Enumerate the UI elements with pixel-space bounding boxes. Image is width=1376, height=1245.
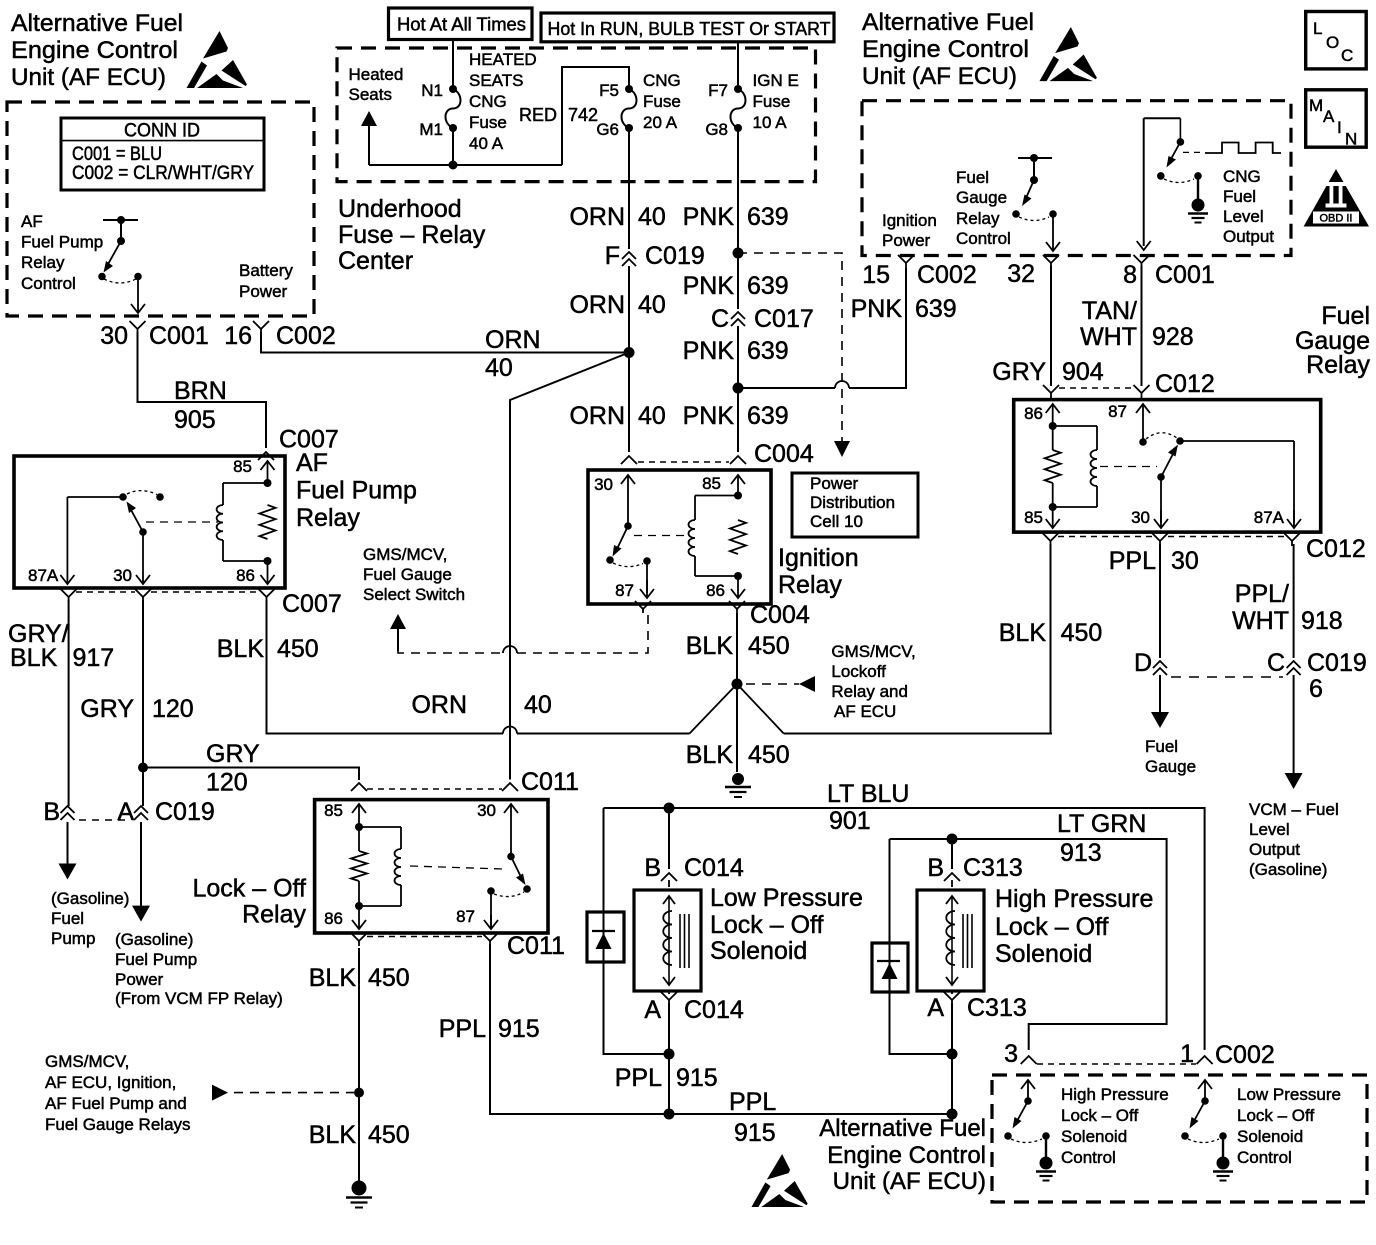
svg-text:32: 32 xyxy=(1007,260,1035,288)
svg-text:AF ECU: AF ECU xyxy=(834,702,896,721)
switch High Pressure Lock-Off Solenoid Control xyxy=(1027,1081,1029,1101)
resistor Ignition Relay xyxy=(730,520,746,554)
wire Heated Seats arrow xyxy=(368,124,370,165)
ESD symbol (bottom) xyxy=(751,1154,807,1207)
svg-text:ORN: ORN xyxy=(485,326,541,354)
wire BLK 450 below ignition relay xyxy=(736,613,738,772)
svg-text:N1: N1 xyxy=(421,81,443,100)
switch Lock-Off Relay xyxy=(507,853,515,861)
wire PNK 639 to C017 xyxy=(737,256,739,309)
svg-text:ORN: ORN xyxy=(411,691,467,719)
relay AF Fuel Pump Relay box xyxy=(14,456,285,588)
symbol MAIN box xyxy=(1306,90,1367,147)
connector 8 C001 xyxy=(1134,255,1150,263)
box Power Distribution Cell 10 xyxy=(792,473,918,537)
svg-text:Fuse – Relay: Fuse – Relay xyxy=(338,221,486,249)
header box Hot At All Times xyxy=(389,8,533,40)
connector C012 bottom xyxy=(1043,533,1059,541)
resistor Lock-Off Relay xyxy=(355,823,363,831)
svg-text:B: B xyxy=(644,854,661,882)
svg-text:Relay: Relay xyxy=(21,253,65,272)
svg-text:Engine Control: Engine Control xyxy=(827,1142,986,1169)
connector C004 top xyxy=(621,456,637,464)
svg-text:Cell 10: Cell 10 xyxy=(810,512,863,531)
dashed wire to BLK 450 junction xyxy=(212,1085,228,1101)
wire BLK 450 to ground (left) xyxy=(354,1088,364,1098)
svg-text:PPL: PPL xyxy=(1109,547,1156,575)
svg-text:639: 639 xyxy=(747,337,789,365)
svg-text:A: A xyxy=(117,798,134,826)
svg-text:450: 450 xyxy=(748,632,790,660)
svg-text:GRY: GRY xyxy=(992,358,1046,386)
svg-text:GMS/MCV,: GMS/MCV, xyxy=(363,545,447,564)
svg-text:3: 3 xyxy=(1004,1040,1018,1068)
wire GRY 904 xyxy=(1050,266,1052,386)
svg-text:86: 86 xyxy=(236,566,255,585)
svg-text:913: 913 xyxy=(1060,839,1102,867)
svg-text:Power: Power xyxy=(239,282,288,301)
svg-text:Ignition: Ignition xyxy=(778,544,859,572)
fuse IGN E 10A xyxy=(734,85,742,93)
connector C011 top xyxy=(351,783,367,791)
svg-text:Control: Control xyxy=(1237,1148,1292,1167)
svg-text:30: 30 xyxy=(1171,547,1199,575)
connector C007 bottom xyxy=(61,589,77,597)
svg-text:CNG: CNG xyxy=(469,92,507,111)
svg-text:Level: Level xyxy=(1249,820,1290,839)
wire PPL/WHT 918 xyxy=(1293,544,1295,658)
svg-text:C: C xyxy=(1267,649,1285,677)
svg-text:Alternative Fuel: Alternative Fuel xyxy=(11,10,183,37)
svg-text:A: A xyxy=(1323,107,1335,126)
svg-text:Solenoid: Solenoid xyxy=(995,940,1092,968)
svg-text:BLK: BLK xyxy=(686,741,734,769)
svg-text:BRN: BRN xyxy=(174,377,227,405)
svg-text:(Gasoline): (Gasoline) xyxy=(115,930,193,949)
wire high solenoid to PPL bus xyxy=(951,1003,953,1114)
svg-text:30: 30 xyxy=(477,801,496,820)
svg-text:Gauge: Gauge xyxy=(956,188,1007,207)
ground (ignition relay BLK 450) xyxy=(732,773,744,785)
svg-text:CNG: CNG xyxy=(643,71,681,90)
svg-text:Output: Output xyxy=(1223,227,1274,246)
AF ECU dashed box (bottom right) xyxy=(992,1075,1367,1202)
svg-text:85: 85 xyxy=(233,457,252,476)
svg-text:BLK: BLK xyxy=(309,964,357,992)
svg-text:BLK: BLK xyxy=(217,635,265,663)
svg-text:639: 639 xyxy=(915,295,957,323)
svg-text:G6: G6 xyxy=(596,120,619,139)
svg-text:86: 86 xyxy=(706,581,725,600)
connector C C019 xyxy=(1287,661,1301,668)
solenoid High Pressure Lock-Off box xyxy=(917,890,984,991)
svg-text:87A: 87A xyxy=(28,566,59,585)
svg-text:Relay: Relay xyxy=(956,209,1000,228)
svg-text:15: 15 xyxy=(862,261,890,289)
svg-text:30: 30 xyxy=(113,566,132,585)
svg-text:120: 120 xyxy=(206,769,248,797)
svg-text:450: 450 xyxy=(277,635,319,663)
diode D-low box xyxy=(587,912,624,962)
solenoid low coil xyxy=(663,896,675,904)
Underhood Fuse-Relay Center dashed box xyxy=(337,48,816,182)
svg-text:RED: RED xyxy=(519,105,557,125)
svg-text:Distribution: Distribution xyxy=(810,493,895,512)
svg-text:Lock – Off: Lock – Off xyxy=(193,874,307,902)
wire to gasoline fuel pump power xyxy=(140,822,142,908)
dashed wire to Power Distribution xyxy=(738,253,842,441)
connector B C313 xyxy=(951,839,953,869)
svg-text:Fuel: Fuel xyxy=(956,168,989,187)
diode high pressure branch xyxy=(890,839,948,1054)
svg-text:86: 86 xyxy=(324,909,343,928)
svg-text:928: 928 xyxy=(1152,323,1194,351)
relay Fuel Gauge Relay box xyxy=(1014,400,1321,532)
svg-text:Relay: Relay xyxy=(778,571,842,599)
ground (CNG fuel level output) xyxy=(1192,199,1205,212)
junction LT BLU xyxy=(664,803,675,814)
svg-text:Unit (AF ECU): Unit (AF ECU) xyxy=(833,1168,986,1195)
svg-text:C004: C004 xyxy=(754,440,814,468)
svg-text:BLK: BLK xyxy=(10,644,58,672)
svg-text:BLK: BLK xyxy=(686,632,734,660)
wire PNK 639 from G8 xyxy=(737,128,739,250)
fuse HEATED SEATS CNG 40A xyxy=(449,85,457,93)
junction PNK 639 top xyxy=(733,248,744,259)
svg-text:20 A: 20 A xyxy=(643,113,678,132)
svg-text:L: L xyxy=(1313,19,1322,38)
fuse CNG 20A xyxy=(625,85,633,93)
svg-text:HEATED: HEATED xyxy=(469,50,537,69)
svg-text:GRY: GRY xyxy=(80,695,134,723)
svg-text:917: 917 xyxy=(73,644,115,672)
svg-text:Level: Level xyxy=(1223,207,1264,226)
svg-text:GRY: GRY xyxy=(206,740,260,768)
svg-text:Fuel: Fuel xyxy=(1321,302,1370,330)
svg-text:C313: C313 xyxy=(967,994,1027,1022)
svg-text:Lock – Off: Lock – Off xyxy=(1237,1106,1314,1125)
header box Hot In RUN BULB TEST Or START xyxy=(541,13,834,42)
switch AF Fuel Pump Relay xyxy=(67,496,123,498)
connector 15 C002 xyxy=(898,255,914,263)
svg-text:VCM – Fuel: VCM – Fuel xyxy=(1249,800,1339,819)
svg-text:86: 86 xyxy=(1024,404,1043,423)
svg-text:C019: C019 xyxy=(1307,649,1367,677)
svg-text:High Pressure: High Pressure xyxy=(1061,1085,1169,1104)
svg-text:PPL: PPL xyxy=(729,1088,776,1116)
svg-text:Fuse: Fuse xyxy=(469,113,507,132)
wire ORN 40 from C002-16 xyxy=(261,332,629,353)
svg-text:C002: C002 xyxy=(1215,1041,1275,1069)
svg-text:M1: M1 xyxy=(419,120,443,139)
wire ORN 40 from G6 xyxy=(628,128,630,249)
connector 32 C002 xyxy=(1043,255,1059,263)
svg-text:C014: C014 xyxy=(684,996,744,1024)
svg-text:Fuel: Fuel xyxy=(1145,737,1178,756)
ground (low pressure solenoid control) xyxy=(1217,1157,1230,1170)
svg-text:ORN: ORN xyxy=(569,203,625,231)
svg-text:450: 450 xyxy=(1061,619,1103,647)
square wave signal symbol xyxy=(1183,151,1203,153)
svg-text:87: 87 xyxy=(615,581,634,600)
svg-text:Fuel Gauge: Fuel Gauge xyxy=(363,565,452,584)
junction PNK 639 lower xyxy=(733,383,744,394)
svg-text:Solenoid: Solenoid xyxy=(1237,1127,1303,1146)
svg-text:Fuel Pump: Fuel Pump xyxy=(21,233,103,252)
dashed pointer GMS/MCV Lockoff Relay and AF ECU xyxy=(799,676,815,692)
svg-text:C017: C017 xyxy=(754,305,814,333)
svg-text:LT BLU: LT BLU xyxy=(827,780,909,808)
coil Ignition Relay xyxy=(734,492,742,500)
svg-text:Fuse: Fuse xyxy=(643,92,681,111)
svg-text:30: 30 xyxy=(594,475,613,494)
connector A C014 xyxy=(661,992,677,1000)
wire BRN 905 xyxy=(138,332,267,448)
svg-text:639: 639 xyxy=(747,402,789,430)
svg-text:Unit (AF ECU): Unit (AF ECU) xyxy=(11,64,166,91)
svg-text:Low Pressure: Low Pressure xyxy=(710,884,863,912)
svg-text:SEATS: SEATS xyxy=(469,71,523,90)
svg-text:Lock – Off: Lock – Off xyxy=(1061,1106,1138,1125)
ESD symbol (top right) xyxy=(1039,27,1096,81)
connector 16 C002 xyxy=(253,321,269,329)
ground (lock-off relay BLK 450) xyxy=(352,1181,367,1196)
svg-text:C004: C004 xyxy=(750,601,810,629)
svg-text:TAN/: TAN/ xyxy=(1082,297,1137,325)
symbol OBD II triangle xyxy=(1304,169,1369,227)
connector A C313 xyxy=(944,992,960,1000)
svg-text:Ignition: Ignition xyxy=(882,211,937,230)
junction LT GRN xyxy=(947,834,958,845)
svg-text:85: 85 xyxy=(324,801,343,820)
svg-text:Fuel Pump: Fuel Pump xyxy=(296,477,417,505)
svg-text:PPL/: PPL/ xyxy=(1235,580,1289,608)
svg-text:8: 8 xyxy=(1123,261,1137,289)
svg-text:M: M xyxy=(1309,96,1323,115)
svg-text:Relay: Relay xyxy=(242,901,306,929)
connector F C019 xyxy=(622,252,636,259)
svg-text:Relay: Relay xyxy=(1306,351,1370,379)
svg-text:O: O xyxy=(1326,33,1339,52)
svg-text:40: 40 xyxy=(638,291,666,319)
svg-text:GMS/MCV,: GMS/MCV, xyxy=(831,642,915,661)
svg-text:LT GRN: LT GRN xyxy=(1057,810,1146,838)
svg-text:PNK: PNK xyxy=(683,337,735,365)
dashed wire GMS/MCV Fuel Gauge Select Switch xyxy=(397,627,399,651)
AF ECU dashed box (top right) xyxy=(862,101,1291,256)
svg-text:C011: C011 xyxy=(507,932,565,960)
svg-text:A: A xyxy=(927,994,944,1022)
svg-text:C002: C002 xyxy=(917,261,977,289)
svg-text:Power: Power xyxy=(115,970,164,989)
connector C C017 xyxy=(731,312,745,319)
connector 30 C001 xyxy=(130,321,146,329)
connector B C014 xyxy=(668,808,670,869)
svg-text:AF: AF xyxy=(21,212,43,231)
wire BLK 450 from C012 xyxy=(1050,544,1052,734)
svg-text:Gauge: Gauge xyxy=(1145,757,1196,776)
wire GRY 120 vertical xyxy=(142,600,144,806)
wire to VCM fuel level output xyxy=(1293,675,1295,775)
svg-text:PNK: PNK xyxy=(683,203,735,231)
relay Ignition Relay box xyxy=(588,470,771,604)
svg-text:F5: F5 xyxy=(599,81,619,100)
svg-text:C019: C019 xyxy=(155,798,215,826)
svg-text:16: 16 xyxy=(224,322,252,350)
svg-text:Fuse: Fuse xyxy=(753,92,791,111)
svg-text:10 A: 10 A xyxy=(753,113,788,132)
connector C019 A xyxy=(134,806,148,813)
svg-text:742: 742 xyxy=(568,105,598,125)
wire RED 742 xyxy=(562,67,629,165)
wire LT BLU 901 bus xyxy=(604,808,1205,1050)
svg-text:Fuel Pump: Fuel Pump xyxy=(115,950,197,969)
coil AF Fuel Pump Relay xyxy=(264,479,272,487)
svg-text:450: 450 xyxy=(748,741,790,769)
svg-text:AF: AF xyxy=(296,449,328,477)
svg-text:Hot At All Times: Hot At All Times xyxy=(397,15,526,35)
svg-text:(From VCM FP Relay): (From VCM FP Relay) xyxy=(115,989,283,1008)
svg-text:G8: G8 xyxy=(705,120,728,139)
svg-text:N: N xyxy=(1345,130,1357,149)
svg-text:Engine Control: Engine Control xyxy=(11,37,178,64)
svg-text:Lock – Off: Lock – Off xyxy=(710,911,824,939)
svg-text:87: 87 xyxy=(1108,402,1127,421)
solenoid Low Pressure Lock-Off box xyxy=(634,890,701,991)
svg-text:Heated: Heated xyxy=(349,65,404,84)
svg-text:PPL: PPL xyxy=(615,1064,662,1092)
wire BLK 450 bus xyxy=(267,733,504,735)
svg-text:AF Fuel Pump and: AF Fuel Pump and xyxy=(45,1094,187,1113)
CONN ID table xyxy=(61,118,264,190)
svg-text:Low Pressure: Low Pressure xyxy=(1237,1085,1341,1104)
svg-text:PPL: PPL xyxy=(439,1015,486,1043)
wire to Fuel Gauge xyxy=(1159,675,1161,714)
diode D-high box xyxy=(872,943,908,992)
svg-text:C313: C313 xyxy=(963,854,1023,882)
svg-text:PNK: PNK xyxy=(851,295,903,323)
svg-text:C019: C019 xyxy=(645,242,705,270)
svg-text:Fuel: Fuel xyxy=(51,909,84,928)
svg-text:C012: C012 xyxy=(1155,370,1215,398)
svg-text:915: 915 xyxy=(676,1064,718,1092)
connector C012 top xyxy=(1043,385,1059,393)
switch CNG Fuel Level Output xyxy=(1144,117,1181,119)
svg-text:30: 30 xyxy=(100,322,128,350)
switch Fuel Gauge Relay Control xyxy=(1018,157,1052,159)
svg-text:87: 87 xyxy=(456,907,475,926)
svg-text:(Gasoline): (Gasoline) xyxy=(1249,860,1327,879)
svg-text:I: I xyxy=(1337,118,1342,137)
svg-text:120: 120 xyxy=(152,695,194,723)
svg-text:639: 639 xyxy=(747,272,789,300)
ground (high pressure solenoid control) xyxy=(1040,1157,1053,1170)
relay Lock-Off Relay box xyxy=(315,800,548,933)
connector 1 C002 xyxy=(1197,1056,1213,1064)
svg-text:Select Switch: Select Switch xyxy=(363,585,465,604)
svg-text:918: 918 xyxy=(1301,607,1343,635)
svg-text:Engine Control: Engine Control xyxy=(862,36,1029,63)
svg-text:450: 450 xyxy=(368,1121,410,1149)
wire GRY 120 horizontal xyxy=(138,763,148,773)
svg-text:Relay: Relay xyxy=(296,504,360,532)
svg-text:915: 915 xyxy=(498,1015,540,1043)
svg-text:C: C xyxy=(1341,46,1353,65)
svg-text:901: 901 xyxy=(829,807,871,835)
svg-text:WHT: WHT xyxy=(1232,607,1289,635)
svg-text:GMS/MCV,: GMS/MCV, xyxy=(45,1052,129,1071)
svg-text:PNK: PNK xyxy=(683,272,735,300)
AF ECU dashed box (top left) xyxy=(7,102,314,316)
svg-text:ORN: ORN xyxy=(569,291,625,319)
svg-text:Seats: Seats xyxy=(349,85,392,104)
svg-text:Center: Center xyxy=(338,247,413,275)
wire PNK 639 to C002-15 xyxy=(738,387,835,389)
svg-text:OBD II: OBD II xyxy=(1319,213,1352,225)
solenoid high coil xyxy=(946,896,958,904)
wire pin 8 xyxy=(1143,118,1145,246)
wire low solenoid to PPL bus xyxy=(668,1003,670,1114)
svg-text:Fuel: Fuel xyxy=(1223,187,1256,206)
switch AF Fuel Pump Relay Control xyxy=(103,219,138,221)
svg-text:Alternative Fuel: Alternative Fuel xyxy=(819,1115,986,1142)
svg-text:639: 639 xyxy=(747,203,789,231)
ESD symbol (top left) xyxy=(187,31,248,88)
svg-text:Hot In RUN, BULB TEST Or START: Hot In RUN, BULB TEST Or START xyxy=(548,19,831,39)
svg-text:A: A xyxy=(644,996,661,1024)
svg-text:905: 905 xyxy=(174,406,216,434)
coil Fuel Gauge Relay xyxy=(1053,425,1097,427)
svg-text:40: 40 xyxy=(524,691,552,719)
wire PPL 915 from lock-off xyxy=(490,944,947,1114)
svg-text:Fuel Gauge Relays: Fuel Gauge Relays xyxy=(45,1115,191,1134)
wire from Hot At All Times xyxy=(452,40,454,87)
svg-text:C014: C014 xyxy=(684,854,744,882)
diode low pressure branch xyxy=(604,808,665,1054)
wire to gasoline fuel pump xyxy=(67,822,69,866)
wire TAN/WHT 928 xyxy=(1141,266,1143,386)
wire LT GRN 913 bus xyxy=(890,839,1167,1050)
svg-text:Pump: Pump xyxy=(51,929,95,948)
svg-text:6: 6 xyxy=(1309,675,1323,703)
svg-text:AF ECU, Ignition,: AF ECU, Ignition, xyxy=(45,1073,176,1092)
svg-text:Control: Control xyxy=(21,274,76,293)
svg-text:C001 = BLU: C001 = BLU xyxy=(72,144,162,165)
wire PPL 30 xyxy=(1159,544,1161,658)
svg-text:B: B xyxy=(43,798,60,826)
svg-text:Power: Power xyxy=(810,474,859,493)
svg-text:Alternative Fuel: Alternative Fuel xyxy=(862,9,1034,36)
svg-text:High Pressure: High Pressure xyxy=(995,885,1153,913)
svg-text:C001: C001 xyxy=(149,322,209,350)
svg-text:CONN ID: CONN ID xyxy=(124,121,200,142)
svg-text:Lockoff: Lockoff xyxy=(831,662,886,681)
connector C004 bottom xyxy=(635,601,651,609)
svg-text:40 A: 40 A xyxy=(469,134,504,153)
svg-text:87A: 87A xyxy=(1254,508,1285,527)
svg-text:BLK: BLK xyxy=(309,1121,357,1149)
connector D C019 xyxy=(1153,661,1167,668)
svg-text:30: 30 xyxy=(1131,508,1150,527)
wire BLK 450 from C007 xyxy=(267,600,504,734)
svg-text:40: 40 xyxy=(485,354,513,382)
svg-text:C012: C012 xyxy=(1306,535,1366,563)
svg-text:IGN E: IGN E xyxy=(753,71,799,90)
switch Ignition Relay xyxy=(627,496,629,526)
svg-text:Battery: Battery xyxy=(239,261,293,280)
svg-text:C011: C011 xyxy=(521,768,579,796)
svg-text:Solenoid: Solenoid xyxy=(710,937,807,965)
